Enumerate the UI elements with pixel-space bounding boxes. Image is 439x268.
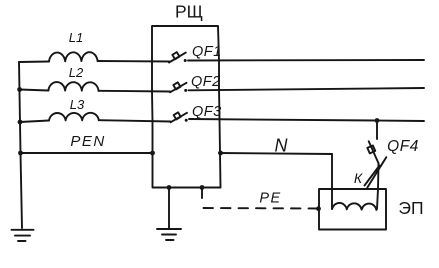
inductor L2 source winding [48, 82, 98, 91]
svg-text:QF1: QF1 [192, 44, 222, 60]
svg-text:L2: L2 [69, 65, 84, 80]
breaker QF3 [171, 112, 188, 122]
wire N drop to load [331, 154, 333, 209]
wire phase line A to QF1 [98, 60, 170, 63]
wire PE dashed drop from board [201, 190, 203, 206]
svg-text:PEN: PEN [70, 133, 105, 150]
svg-text:L3: L3 [70, 97, 85, 112]
wire phase line C before winding [20, 121, 49, 123]
breaker QF4 [367, 141, 378, 163]
svg-text:PE: PE [259, 191, 281, 207]
wire phase line B to QF2 [99, 90, 171, 93]
inductor L3 source winding [49, 113, 99, 121]
node N tap on board right edge [218, 151, 223, 156]
wire left source bus vertical (star point) [19, 62, 22, 228]
inductor load winding [332, 203, 376, 210]
wire PE dashed conductor [204, 207, 319, 210]
svg-text:N: N [275, 136, 289, 156]
node PE at load frame [316, 206, 321, 211]
node junction PEN on bus [18, 151, 23, 156]
svg-text:QF2: QF2 [191, 74, 221, 90]
node junction L3 on bus [18, 120, 23, 125]
svg-text:QF3: QF3 [192, 104, 222, 120]
svg-text:ЭП: ЭП [398, 198, 423, 218]
node junction QF4 tap on phase C [375, 118, 380, 123]
enclosure РЩ distribution board [152, 26, 219, 62]
wire phase line C to QF3 [99, 120, 171, 121]
wire drop to QF4 [376, 121, 378, 140]
node ground tap on board bottom [167, 185, 172, 190]
svg-text:РЩ: РЩ [175, 2, 203, 22]
enclosure ЭП load frame [319, 189, 386, 230]
svg-text:L1: L1 [69, 30, 83, 45]
breaker QF1 [169, 52, 187, 62]
wire N conductor [219, 153, 332, 154]
wire phase B out [189, 88, 425, 90]
ground source earth symbol [12, 230, 34, 241]
wire phase A out [188, 59, 424, 62]
ground of РЩ board earth [157, 188, 181, 241]
node junction L2 on bus [17, 87, 22, 92]
inductor L1 source winding [49, 52, 98, 61]
wire phase line A before winding [19, 61, 49, 64]
wire PEN conductor [21, 152, 153, 154]
breaker QF2 [170, 82, 187, 92]
contactor contact K slash [365, 157, 387, 187]
svg-text:QF4: QF4 [387, 138, 419, 155]
svg-text:К: К [354, 170, 363, 186]
wire QF4 to load [377, 163, 379, 209]
node PEN at board [150, 151, 155, 156]
node PE tap on board bottom [200, 185, 205, 190]
wire phase line B before winding [20, 90, 49, 91]
wire phase C out [189, 119, 424, 121]
